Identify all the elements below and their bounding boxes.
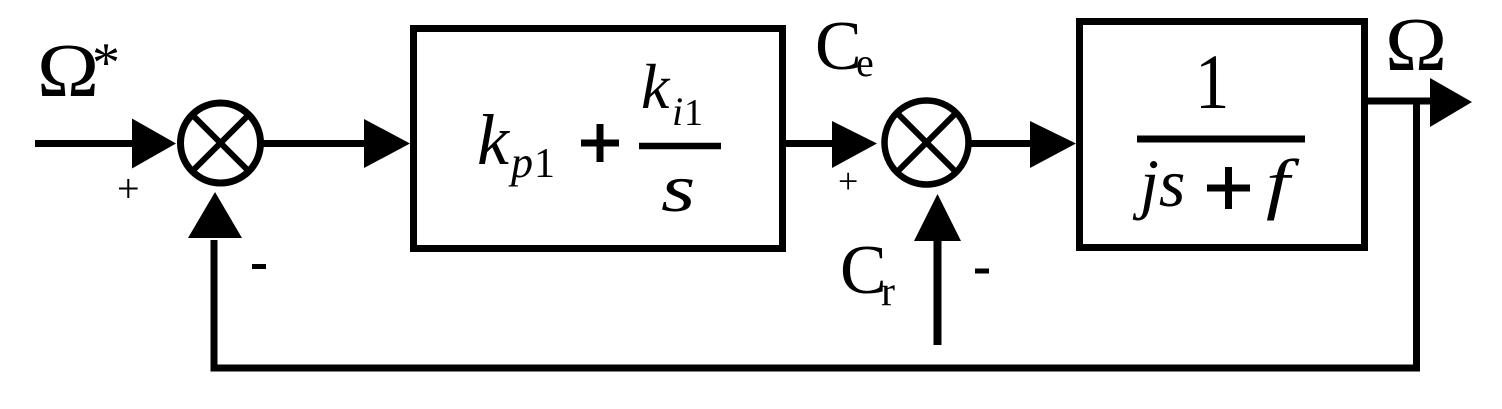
svg-text:+: + xyxy=(117,166,140,211)
svg-text:1: 1 xyxy=(534,141,555,187)
svg-text:k: k xyxy=(641,51,671,122)
svg-text:1: 1 xyxy=(684,92,703,134)
svg-text:e: e xyxy=(856,40,874,85)
svg-text:js: js xyxy=(1132,145,1185,221)
svg-text:C: C xyxy=(815,8,862,85)
svg-text:Ω: Ω xyxy=(1385,3,1447,87)
svg-text:s: s xyxy=(661,152,695,227)
svg-text:+: + xyxy=(838,161,858,201)
svg-text:1: 1 xyxy=(1195,39,1229,125)
svg-text:Ω: Ω xyxy=(37,29,99,113)
svg-text:i: i xyxy=(672,89,683,134)
svg-text:p: p xyxy=(508,138,533,187)
svg-text:k: k xyxy=(477,100,511,180)
svg-text:C: C xyxy=(840,232,887,309)
svg-text:*: * xyxy=(92,32,120,94)
svg-text:r: r xyxy=(881,269,895,315)
